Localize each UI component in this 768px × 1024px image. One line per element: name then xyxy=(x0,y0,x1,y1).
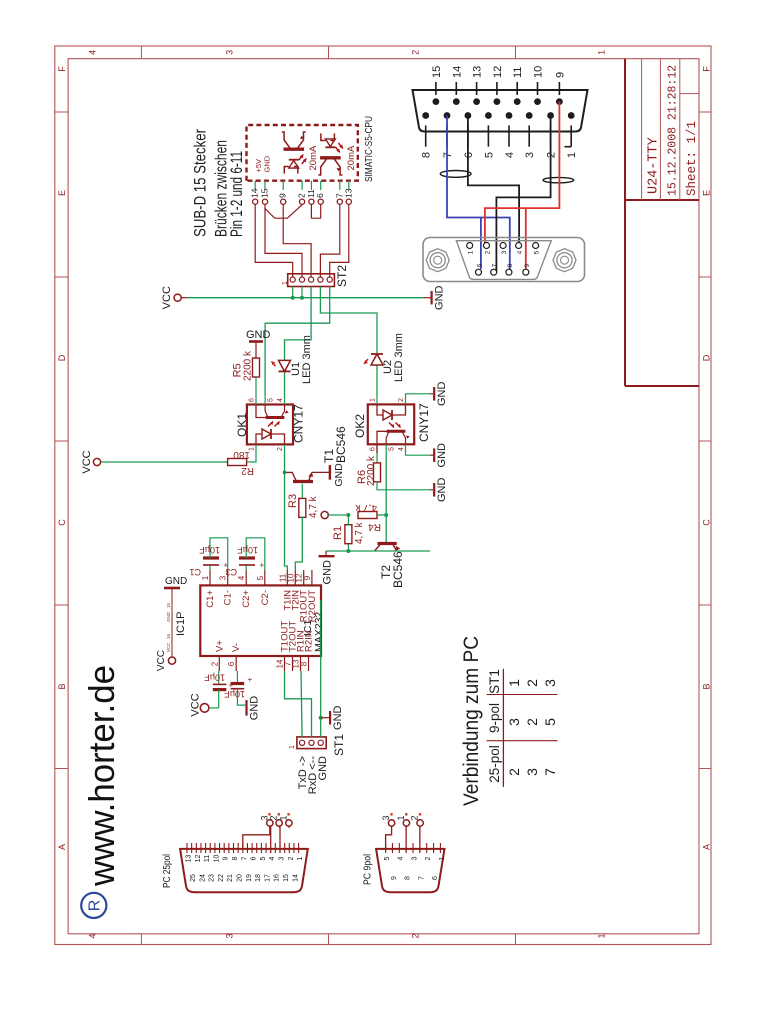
svg-text:4: 4 xyxy=(277,398,284,402)
svg-text:BC546: BC546 xyxy=(391,551,405,588)
svg-text:+: + xyxy=(222,562,231,567)
svg-text:12: 12 xyxy=(195,855,202,863)
svg-text:R3: R3 xyxy=(287,494,299,508)
svg-text:2: 2 xyxy=(210,661,219,666)
svg-text:PC 25pol: PC 25pol xyxy=(162,854,173,888)
svg-text:4: 4 xyxy=(398,447,405,451)
svg-text:17: 17 xyxy=(264,874,271,882)
svg-text:15: 15 xyxy=(283,874,290,882)
svg-text:3: 3 xyxy=(381,815,391,820)
svg-text:2: 2 xyxy=(485,250,492,254)
svg-text:15.12.2008 21:28:12: 15.12.2008 21:28:12 xyxy=(667,65,680,196)
svg-text:9: 9 xyxy=(303,575,312,580)
svg-text:6: 6 xyxy=(315,193,325,198)
svg-text:4: 4 xyxy=(88,933,98,938)
svg-text:2: 2 xyxy=(410,815,420,820)
svg-text:VCC: VCC xyxy=(161,286,173,309)
svg-text:2: 2 xyxy=(411,50,421,55)
svg-text:7: 7 xyxy=(442,152,454,158)
svg-text:1: 1 xyxy=(468,250,475,254)
svg-text:1: 1 xyxy=(201,575,210,580)
svg-text:R2: R2 xyxy=(241,465,254,476)
svg-text:6: 6 xyxy=(249,398,256,402)
svg-text:9: 9 xyxy=(554,72,566,78)
svg-text:C2-: C2- xyxy=(260,590,271,605)
svg-text:2: 2 xyxy=(524,679,540,687)
svg-text:18: 18 xyxy=(255,874,262,882)
svg-text:GND: GND xyxy=(246,329,271,341)
svg-text:C1: C1 xyxy=(189,567,201,577)
svg-text:1: 1 xyxy=(297,856,304,860)
svg-text:2: 2 xyxy=(398,398,405,402)
svg-text:R2IN: R2IN xyxy=(304,630,315,652)
svg-text:1: 1 xyxy=(439,856,446,860)
svg-text:16: 16 xyxy=(166,633,171,639)
svg-text:1: 1 xyxy=(370,398,377,402)
svg-text:Sheet: 1/1: Sheet: 1/1 xyxy=(685,121,699,196)
svg-text:2200 k: 2200 k xyxy=(366,455,377,486)
svg-text:LED 3mm: LED 3mm xyxy=(301,335,313,384)
svg-text:GND: GND xyxy=(165,576,187,587)
svg-text:VCC: VCC xyxy=(190,693,202,716)
svg-text:ST1: ST1 xyxy=(487,669,502,694)
svg-text:VCC: VCC xyxy=(81,450,93,473)
svg-text:V+: V+ xyxy=(214,640,225,652)
svg-text:IC1P: IC1P xyxy=(175,612,187,636)
svg-text:2: 2 xyxy=(269,815,279,820)
svg-text:10µF: 10µF xyxy=(224,689,245,699)
svg-text:13: 13 xyxy=(343,188,353,198)
svg-text:9: 9 xyxy=(223,856,230,860)
svg-text:VCC: VCC xyxy=(166,642,171,652)
svg-text:5: 5 xyxy=(268,398,275,402)
svg-text:2: 2 xyxy=(411,933,421,938)
svg-text:7: 7 xyxy=(241,856,248,860)
svg-text:3: 3 xyxy=(501,250,508,254)
svg-text:4,7 k: 4,7 k xyxy=(354,521,365,544)
svg-text:Pin 1-2 und 6-11: Pin 1-2 und 6-11 xyxy=(228,151,246,237)
svg-text:4: 4 xyxy=(88,50,98,55)
svg-text:1: 1 xyxy=(289,745,296,749)
svg-text:GND: GND xyxy=(249,696,261,721)
svg-text:21: 21 xyxy=(227,874,234,882)
svg-text:9: 9 xyxy=(391,876,398,880)
svg-text:A: A xyxy=(57,844,67,850)
svg-text:B: B xyxy=(701,683,711,689)
svg-text:1: 1 xyxy=(506,679,522,687)
svg-text:OK1: OK1 xyxy=(235,413,249,437)
svg-text:CNY17: CNY17 xyxy=(417,403,431,442)
svg-text:23: 23 xyxy=(209,874,216,882)
svg-text:SIMATIC-S5-CPU: SIMATIC-S5-CPU xyxy=(363,116,375,182)
svg-text:14: 14 xyxy=(292,874,299,882)
svg-text:C1+: C1+ xyxy=(205,590,216,608)
svg-text:+: + xyxy=(258,562,267,567)
svg-text:180: 180 xyxy=(233,449,250,460)
svg-text:GND: GND xyxy=(436,478,448,503)
svg-text:16: 16 xyxy=(274,874,281,882)
svg-text:E: E xyxy=(701,190,711,196)
svg-text:GND: GND xyxy=(434,285,446,310)
svg-text:5: 5 xyxy=(260,856,267,860)
svg-text:Verbindung zum PC: Verbindung zum PC xyxy=(460,636,483,806)
svg-text:3: 3 xyxy=(524,152,536,158)
svg-text:1: 1 xyxy=(597,933,607,938)
svg-text:R1: R1 xyxy=(332,526,344,540)
svg-text:3: 3 xyxy=(411,856,418,860)
svg-text:2200 k: 2200 k xyxy=(243,350,254,381)
svg-text:OK2: OK2 xyxy=(353,414,367,438)
svg-text:4: 4 xyxy=(237,575,246,580)
svg-text:22: 22 xyxy=(218,874,225,882)
svg-text:8: 8 xyxy=(300,661,309,666)
svg-text:6: 6 xyxy=(477,263,484,267)
svg-text:4: 4 xyxy=(269,856,276,860)
svg-text:4: 4 xyxy=(517,250,524,254)
svg-text:1: 1 xyxy=(282,281,289,285)
svg-text:15: 15 xyxy=(431,66,443,78)
svg-text:11: 11 xyxy=(204,855,211,862)
svg-text:14: 14 xyxy=(250,188,260,198)
svg-text:2: 2 xyxy=(277,447,284,451)
svg-text:VCC: VCC xyxy=(156,650,167,671)
svg-text:6: 6 xyxy=(370,447,377,451)
svg-text:3: 3 xyxy=(225,933,235,938)
svg-text:25: 25 xyxy=(190,874,197,882)
svg-text:SUB-D 15 Stecker: SUB-D 15 Stecker xyxy=(192,129,210,237)
svg-text:4,7 k: 4,7 k xyxy=(308,495,319,518)
svg-text:GND: GND xyxy=(263,155,272,172)
svg-text:C: C xyxy=(57,519,67,526)
svg-text:9: 9 xyxy=(524,263,531,267)
svg-text:F: F xyxy=(701,66,711,72)
svg-text:LED 3mm: LED 3mm xyxy=(393,333,405,382)
svg-text:14: 14 xyxy=(451,66,463,78)
svg-text:10µF: 10µF xyxy=(204,673,225,683)
svg-text:5: 5 xyxy=(483,152,495,158)
svg-text:R: R xyxy=(87,900,104,912)
svg-text:ST2: ST2 xyxy=(335,265,349,287)
svg-text:GND: GND xyxy=(322,560,334,585)
svg-text:8: 8 xyxy=(421,152,433,158)
svg-text:20mA: 20mA xyxy=(308,145,319,170)
svg-text:20: 20 xyxy=(237,874,244,882)
svg-text:13: 13 xyxy=(186,855,193,863)
svg-text:D: D xyxy=(701,354,711,361)
svg-text:10: 10 xyxy=(533,66,545,78)
svg-text:13: 13 xyxy=(472,66,484,78)
svg-text:7: 7 xyxy=(492,263,499,267)
svg-text:+: + xyxy=(246,677,255,682)
svg-text:7: 7 xyxy=(418,876,425,880)
svg-text:5: 5 xyxy=(534,250,541,254)
svg-text:CNY17: CNY17 xyxy=(292,404,306,443)
svg-text:B: B xyxy=(57,683,67,689)
svg-text:R2OUT: R2OUT xyxy=(307,590,318,622)
svg-text:D: D xyxy=(57,354,67,361)
svg-text:R4: R4 xyxy=(368,521,381,532)
svg-text:1: 1 xyxy=(396,815,406,820)
svg-text:2: 2 xyxy=(524,718,540,726)
svg-text:20mA: 20mA xyxy=(346,145,357,170)
svg-text:1: 1 xyxy=(597,50,607,55)
svg-text:6: 6 xyxy=(251,856,258,860)
svg-text:+: + xyxy=(227,682,236,687)
svg-text:12: 12 xyxy=(492,66,504,78)
svg-text:C1-: C1- xyxy=(223,590,234,605)
svg-text:F: F xyxy=(57,66,67,72)
svg-text:U24-TTY: U24-TTY xyxy=(647,137,662,194)
svg-text:C3: C3 xyxy=(225,567,237,577)
svg-text:7: 7 xyxy=(542,768,558,776)
svg-text:10µF: 10µF xyxy=(199,545,220,555)
svg-text:2: 2 xyxy=(546,152,558,158)
svg-text:GND: GND xyxy=(436,382,448,407)
svg-text:5: 5 xyxy=(256,575,265,580)
svg-text:3: 3 xyxy=(225,50,235,55)
svg-text:V-: V- xyxy=(231,643,242,652)
svg-text:GND: GND xyxy=(436,443,448,468)
svg-text:24: 24 xyxy=(199,874,206,882)
svg-text:4: 4 xyxy=(398,856,405,860)
svg-text:GND: GND xyxy=(333,463,345,487)
svg-text:www.horter.de: www.horter.de xyxy=(81,665,122,887)
svg-text:15: 15 xyxy=(260,188,270,198)
svg-text:E: E xyxy=(57,190,67,196)
svg-text:3: 3 xyxy=(524,768,540,776)
svg-text:3: 3 xyxy=(542,679,558,687)
svg-text:9: 9 xyxy=(278,193,288,198)
svg-text:8: 8 xyxy=(405,876,412,880)
svg-text:PC 9pol: PC 9pol xyxy=(363,854,374,885)
svg-text:5: 5 xyxy=(384,856,391,860)
svg-text:4,7 k: 4,7 k xyxy=(354,502,377,513)
svg-text:2: 2 xyxy=(506,768,522,776)
svg-text:3: 3 xyxy=(506,718,522,726)
svg-text:C2+: C2+ xyxy=(241,590,252,608)
svg-text:19: 19 xyxy=(246,874,253,882)
svg-text:1: 1 xyxy=(278,815,288,820)
svg-text:6: 6 xyxy=(227,661,236,666)
svg-text:2: 2 xyxy=(288,856,295,860)
svg-text:11: 11 xyxy=(512,67,524,78)
svg-text:10: 10 xyxy=(213,855,220,863)
svg-text:8: 8 xyxy=(507,263,514,267)
svg-text:25-pol: 25-pol xyxy=(487,745,502,783)
svg-text:6: 6 xyxy=(463,152,475,158)
svg-text:2: 2 xyxy=(425,856,432,860)
svg-text:10µF: 10µF xyxy=(237,545,258,555)
svg-text:5: 5 xyxy=(389,447,396,451)
svg-text:ST1: ST1 xyxy=(332,734,346,756)
svg-text:6: 6 xyxy=(432,876,439,880)
svg-text:GND: GND xyxy=(332,705,344,730)
svg-text:15: 15 xyxy=(166,602,171,608)
svg-text:A: A xyxy=(701,844,711,850)
svg-text:1: 1 xyxy=(566,152,578,158)
svg-text:BC546: BC546 xyxy=(334,426,348,463)
svg-text:9-pol: 9-pol xyxy=(487,703,502,733)
svg-text:4: 4 xyxy=(504,152,516,158)
svg-text:5: 5 xyxy=(542,718,558,726)
svg-text:C: C xyxy=(701,519,711,526)
svg-text:3: 3 xyxy=(279,856,286,860)
svg-text:GND: GND xyxy=(166,611,171,622)
svg-text:8: 8 xyxy=(232,856,239,860)
svg-text:GND: GND xyxy=(317,756,329,781)
